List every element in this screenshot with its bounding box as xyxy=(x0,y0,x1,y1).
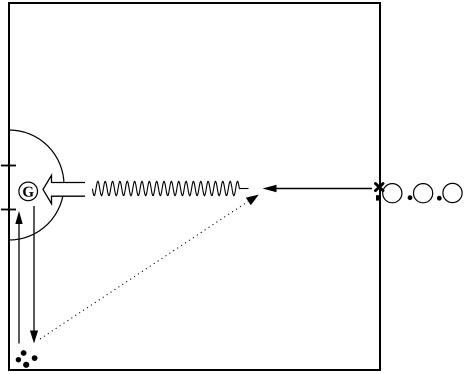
puck pile dot 4 xyxy=(23,362,29,368)
dotted skating path xyxy=(40,202,248,340)
puck-carry zigzag line xyxy=(92,181,239,196)
goalie marker G circle xyxy=(19,182,38,201)
player O circle 2 xyxy=(414,184,433,203)
puck pile dot 1 xyxy=(21,350,27,356)
pass line from X xyxy=(276,188,372,190)
pass line arrowhead xyxy=(263,185,277,193)
player X stroke 2 xyxy=(376,184,384,191)
zigzag lead-out dash xyxy=(240,188,249,190)
block arrow (shot on goal) xyxy=(43,175,85,203)
puck pile dot 3 xyxy=(32,355,38,361)
up arrowhead xyxy=(15,211,22,224)
dotted path arrowhead xyxy=(246,195,259,206)
player O circle 1 xyxy=(383,184,402,203)
player O circle 3 xyxy=(443,183,462,202)
upper goal-post hash mark xyxy=(1,165,16,167)
lower goal-post hash mark xyxy=(1,209,16,211)
puck at X xyxy=(376,195,381,200)
puck dot before O3 xyxy=(437,196,442,201)
down arrowhead xyxy=(30,331,38,344)
down-and-back lane: down line xyxy=(33,206,35,331)
goalie letter G xyxy=(23,187,34,197)
down-and-back lane: up line xyxy=(18,223,20,344)
rink border xyxy=(9,3,380,370)
puck dot before O2 xyxy=(408,195,413,200)
puck pile dot 2 xyxy=(16,357,21,362)
goal crease arc xyxy=(9,130,64,240)
player X stroke 1 xyxy=(376,184,384,191)
